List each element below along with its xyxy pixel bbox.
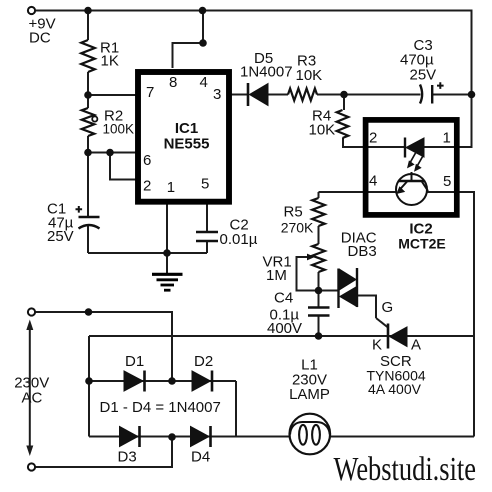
svg-text:10K: 10K [309,122,336,139]
svg-text:6: 6 [143,152,151,169]
svg-text:8: 8 [169,74,177,91]
svg-text:2: 2 [143,178,151,195]
svg-text:5: 5 [201,176,209,193]
svg-text:0.01µ: 0.01µ [220,231,258,248]
svg-text:3: 3 [213,86,221,103]
svg-text:K: K [372,337,382,354]
svg-text:4: 4 [369,173,377,190]
svg-text:R5: R5 [284,204,303,221]
svg-text:D1: D1 [125,353,144,370]
svg-text:100K: 100K [103,122,135,137]
svg-text:D3: D3 [118,449,137,466]
svg-text:G: G [382,299,394,316]
svg-text:D1 - D4 = 1N4007: D1 - D4 = 1N4007 [100,399,221,416]
svg-text:DC: DC [29,30,51,47]
svg-text:D2: D2 [194,353,213,370]
svg-text:C4: C4 [274,290,293,307]
svg-text:A: A [411,337,421,354]
svg-text:DB3: DB3 [348,243,377,260]
svg-text:270K: 270K [281,220,314,236]
svg-text:400V: 400V [267,320,302,337]
svg-text:4: 4 [200,74,208,91]
svg-text:1M: 1M [266,267,287,284]
svg-text:IC1: IC1 [175,120,198,137]
svg-text:25V: 25V [410,67,437,84]
svg-text:Webstudi.site: Webstudi.site [334,451,477,487]
svg-text:MCT2E: MCT2E [398,236,445,252]
svg-text:1K: 1K [101,53,119,70]
svg-text:D4: D4 [191,449,210,466]
svg-text:25V: 25V [47,228,74,245]
svg-text:NE555: NE555 [164,136,210,153]
svg-text:2: 2 [369,130,377,147]
svg-text:7: 7 [146,84,154,101]
svg-text:1: 1 [167,179,175,196]
svg-text:1N4007: 1N4007 [240,64,293,81]
svg-text:4A 400V: 4A 400V [368,381,422,397]
svg-text:5: 5 [443,173,451,190]
svg-text:AC: AC [22,390,43,407]
svg-text:LAMP: LAMP [289,386,330,403]
svg-text:10K: 10K [296,67,323,84]
svg-text:1: 1 [443,130,451,147]
